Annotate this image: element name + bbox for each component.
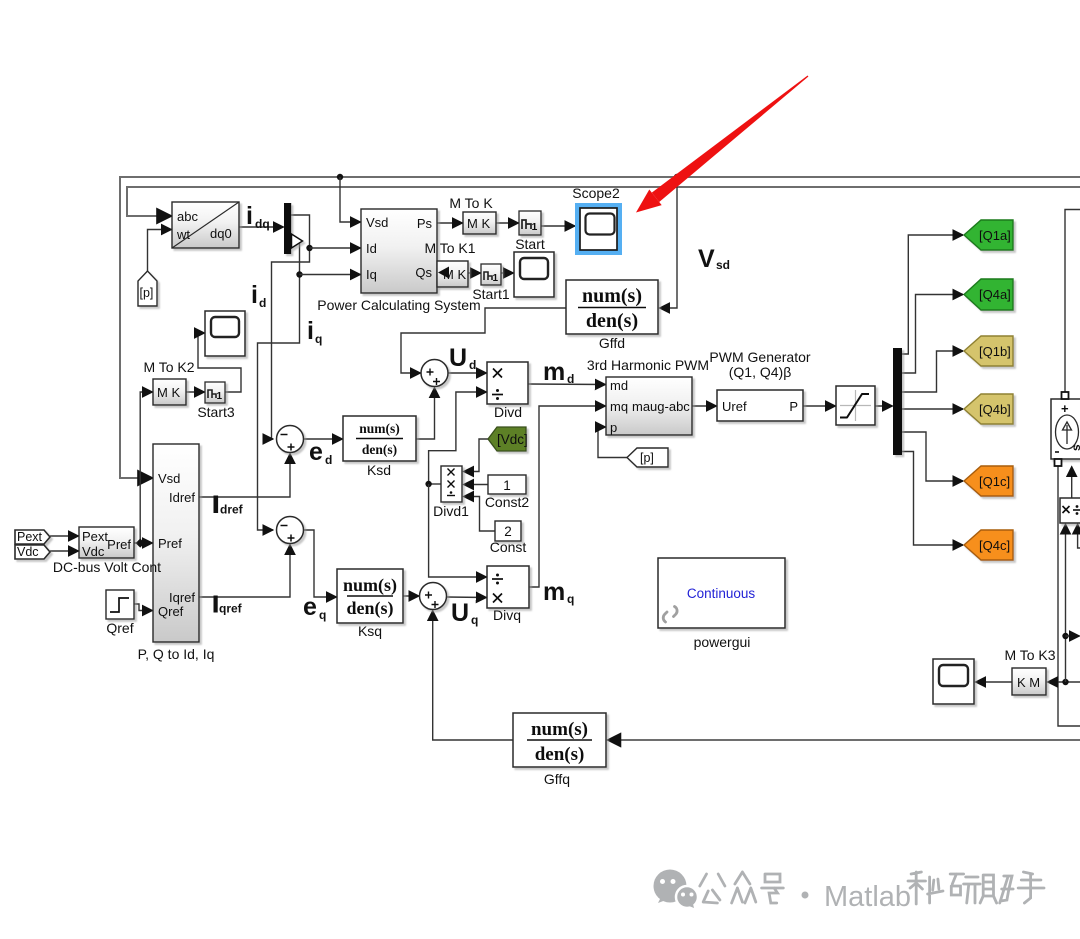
block Divd1 product mirrored bbox=[441, 466, 462, 502]
wire e_d to Ksd bbox=[304, 438, 343, 440]
svg-text:Ps: Ps bbox=[417, 216, 433, 231]
svg-text:m: m bbox=[543, 358, 565, 386]
tag Q4c goto bbox=[964, 530, 1013, 560]
junction rail A to Power Calculating System bbox=[337, 174, 343, 180]
svg-text:M K: M K bbox=[157, 385, 180, 400]
svg-text:d: d bbox=[567, 372, 574, 386]
wire branch to right edge y636 bbox=[1066, 635, 1080, 637]
wire Gffd output to U_d sum left bbox=[401, 308, 566, 373]
svg-text:[Vdc]: [Vdc] bbox=[497, 432, 528, 447]
svg-text:num(s): num(s) bbox=[359, 421, 400, 436]
scope2 selected bbox=[578, 206, 620, 253]
svg-text:powergui: powergui bbox=[694, 634, 751, 650]
block Const2 bbox=[488, 475, 526, 494]
svg-text:mq: mq bbox=[610, 399, 628, 414]
block 3rd Harmonic PWM bbox=[606, 377, 692, 435]
block powergui bbox=[658, 558, 785, 628]
svg-text:qref: qref bbox=[219, 602, 243, 616]
svg-text:d: d bbox=[325, 453, 332, 467]
wire m_q Divq to 3rd Harmonic mq bbox=[529, 406, 606, 587]
wire M To K1 to Start1 bbox=[468, 272, 481, 274]
tag p from (up) bbox=[138, 271, 157, 306]
wire demux2 out6 to Q4c bbox=[902, 452, 963, 546]
wire demux2 out1 to Q1a bbox=[902, 235, 963, 354]
scope4 bbox=[933, 659, 974, 704]
demux1 bbox=[284, 203, 303, 254]
svg-text:p: p bbox=[610, 420, 617, 435]
wire demux2 out2 to Q4a bbox=[902, 295, 963, 374]
svg-text:Divd: Divd bbox=[494, 404, 522, 420]
svg-text:d: d bbox=[469, 358, 476, 372]
wire demux2 out5 to Q1c bbox=[902, 432, 963, 481]
svg-text:[Q4c]: [Q4c] bbox=[979, 538, 1010, 553]
svg-text:Uref: Uref bbox=[722, 399, 747, 414]
block Start1 step bbox=[481, 264, 501, 285]
svg-text:DC-bus Volt Cont: DC-bus Volt Cont bbox=[53, 559, 161, 575]
svg-text:Start3: Start3 bbox=[197, 404, 235, 420]
junction i_d bbox=[306, 245, 312, 251]
wire M To K2 to Start3 bbox=[186, 391, 205, 393]
tag Vdc goto green bbox=[488, 427, 528, 451]
svg-text:dref: dref bbox=[220, 503, 244, 517]
wire Gffq long feedback input bbox=[608, 739, 1080, 741]
block dq0 abc transform bbox=[172, 202, 239, 248]
wire Pref output bbox=[134, 542, 153, 544]
svg-text:P, Q to Id, Iq: P, Q to Id, Iq bbox=[138, 646, 215, 662]
wire demux out1 i_d bbox=[272, 215, 310, 439]
wire Idref to e_d sum bbox=[199, 454, 290, 498]
wire K M output to scope4 bbox=[976, 681, 1013, 683]
svg-text:d: d bbox=[259, 296, 266, 310]
block Const bbox=[495, 521, 521, 541]
svg-text:U: U bbox=[451, 599, 469, 627]
svg-text:Gffd: Gffd bbox=[599, 335, 625, 351]
svg-text:num(s): num(s) bbox=[531, 719, 588, 740]
wire from tag p to 3rd Harmonic p input bbox=[598, 427, 627, 458]
svg-text:Vsd: Vsd bbox=[366, 215, 388, 230]
svg-text:Qs: Qs bbox=[415, 265, 432, 280]
svg-text:q: q bbox=[567, 592, 574, 606]
svg-text:Gffq: Gffq bbox=[544, 771, 570, 787]
svg-text:V: V bbox=[698, 245, 715, 273]
wire demux2 out3 to Q1b bbox=[902, 351, 963, 392]
wire right edge feed to K M and product2 bbox=[1048, 681, 1080, 683]
wire PWM Generator P to saturation bbox=[803, 405, 836, 407]
tag Q1b goto bbox=[964, 336, 1013, 366]
wire Const2 to Divd1 input2 bbox=[464, 484, 489, 486]
tag Pext inport bbox=[15, 530, 50, 544]
svg-text:e: e bbox=[309, 438, 323, 466]
svg-text:M To K1: M To K1 bbox=[424, 240, 475, 256]
svg-text:s: s bbox=[1069, 444, 1080, 451]
wire right edge into current source plus terminal bbox=[1065, 210, 1080, 393]
svg-text:Power Calculating System: Power Calculating System bbox=[317, 297, 480, 313]
wire Iqref to e_q sum bbox=[199, 545, 290, 598]
tag Vdc inport bbox=[15, 545, 50, 559]
wire Pref riser to M To K2 input bbox=[140, 392, 152, 543]
svg-text:Ksq: Ksq bbox=[358, 623, 382, 639]
wire m_d Divd to 3rd Harmonic md bbox=[528, 383, 606, 386]
svg-text:abc: abc bbox=[177, 209, 198, 224]
block Gffd transfer function bbox=[566, 280, 658, 334]
svg-text:Start: Start bbox=[515, 236, 545, 252]
svg-text:Divq: Divq bbox=[493, 607, 521, 623]
svg-text:num(s): num(s) bbox=[343, 575, 397, 596]
svg-text:M To K3: M To K3 bbox=[1004, 647, 1055, 663]
wire M To K to Start bbox=[496, 222, 519, 224]
terminal current source minus bbox=[1055, 459, 1062, 466]
block Divq product bbox=[487, 566, 529, 608]
svg-text:m: m bbox=[543, 578, 565, 606]
wire U_q to Divq input2 bbox=[447, 596, 487, 599]
svg-text:den(s): den(s) bbox=[586, 310, 638, 332]
tag Q4a goto bbox=[964, 279, 1013, 310]
wire demux out2 i_q bbox=[258, 241, 300, 530]
junction K M feed bbox=[1062, 679, 1068, 685]
block K M rate bbox=[1012, 668, 1046, 695]
block PWM Generator bbox=[717, 390, 803, 421]
demux2 bbox=[893, 348, 902, 455]
svg-text:dq: dq bbox=[255, 217, 270, 231]
block Ksd transfer function bbox=[343, 416, 416, 461]
wire Start3 to scope K2 bbox=[198, 333, 241, 392]
wire Ksq to U_q sum bbox=[403, 595, 419, 597]
svg-text:1: 1 bbox=[503, 478, 511, 493]
wire Divd1 junction down to Divq input1 bbox=[429, 484, 487, 577]
svg-text:[p]: [p] bbox=[640, 451, 654, 465]
tag Q1c goto bbox=[964, 466, 1013, 496]
wire top rail B (abc measurement bus) bbox=[127, 187, 1080, 216]
block M To K2 bbox=[153, 379, 186, 405]
wire Divd1 output bbox=[429, 483, 441, 485]
wire Start1 to scope bbox=[501, 272, 514, 274]
svg-text:U: U bbox=[449, 344, 467, 372]
wire rail A down to Vsd input of Power Calculating System bbox=[340, 177, 361, 222]
svg-text:Matlab: Matlab bbox=[824, 881, 911, 913]
block P Q to Id Iq bbox=[153, 444, 199, 642]
svg-text:[Q4b]: [Q4b] bbox=[979, 402, 1011, 417]
svg-text:[p]: [p] bbox=[140, 286, 154, 300]
block Ksq transfer function bbox=[337, 569, 403, 623]
svg-text:Const: Const bbox=[490, 539, 527, 555]
svg-text:Pext: Pext bbox=[17, 530, 43, 544]
sum U_q bbox=[420, 583, 447, 610]
wire Gffq output to U_q sum bottom bbox=[433, 611, 513, 741]
svg-text:Continuous: Continuous bbox=[687, 586, 756, 601]
svg-text:P: P bbox=[789, 399, 798, 414]
svg-text:q: q bbox=[471, 613, 478, 627]
junction rail A to Gffd bbox=[674, 174, 680, 180]
block saturation bbox=[836, 386, 875, 425]
scope K2 bbox=[205, 311, 245, 356]
wire Ksd to U_d sum bottom bbox=[416, 388, 435, 440]
svg-text:Vsd: Vsd bbox=[158, 471, 180, 486]
svg-text:num(s): num(s) bbox=[582, 285, 642, 307]
sum e_q bbox=[277, 517, 304, 544]
svg-text:Start1: Start1 bbox=[472, 286, 510, 302]
svg-text:Id: Id bbox=[366, 241, 377, 256]
wire product2 input2 from right edge bbox=[1078, 524, 1080, 548]
wire Vdc tag to Divd1 input1 bbox=[464, 439, 489, 472]
scope of Start1 bbox=[514, 252, 554, 297]
svg-text:i: i bbox=[251, 281, 258, 309]
junction branch right at y636 bbox=[1062, 633, 1068, 639]
svg-text:maug-abc: maug-abc bbox=[632, 399, 690, 414]
watermark wechat icon bbox=[654, 870, 699, 909]
wire Divd1 junction to Divd input2 bbox=[429, 392, 487, 484]
svg-text:1: 1 bbox=[493, 273, 499, 284]
wire from tag p to wt input of dq0 bbox=[148, 230, 172, 272]
wire saturation to demux2 bbox=[875, 405, 893, 407]
svg-text:+: + bbox=[1061, 401, 1069, 416]
svg-text:2: 2 bbox=[504, 524, 512, 539]
svg-text:Vdc: Vdc bbox=[17, 545, 39, 559]
svg-text:(Q1, Q4)β: (Q1, Q4)β bbox=[729, 364, 792, 380]
annotation red arrow bbox=[636, 76, 808, 213]
wire Vdc tag to DC-bus bbox=[50, 550, 79, 552]
svg-text:e: e bbox=[303, 593, 317, 621]
svg-text:[Q4a]: [Q4a] bbox=[979, 287, 1011, 302]
wire i_d branch to Id input bbox=[310, 247, 361, 249]
svg-text:Divd1: Divd1 bbox=[433, 503, 469, 519]
svg-text:Pref: Pref bbox=[107, 537, 131, 552]
svg-text:Iqref: Iqref bbox=[169, 590, 195, 605]
wire i_q branch to Iq input bbox=[300, 274, 361, 276]
tag p from (left) bbox=[627, 448, 668, 467]
svg-text:den(s): den(s) bbox=[535, 744, 585, 765]
svg-text:wt: wt bbox=[176, 227, 190, 242]
svg-text:K M: K M bbox=[1017, 675, 1040, 690]
svg-text:q: q bbox=[315, 332, 322, 346]
svg-text:[Q1b]: [Q1b] bbox=[979, 344, 1011, 359]
svg-text:Iq: Iq bbox=[366, 267, 377, 282]
wire rail A down to Gffd input (mirrored) bbox=[660, 177, 678, 308]
block Power Calculating System bbox=[361, 209, 437, 293]
svg-text:i: i bbox=[307, 317, 314, 345]
block Qref step bbox=[106, 590, 134, 619]
svg-text:Scope2: Scope2 bbox=[572, 185, 620, 201]
svg-text:sd: sd bbox=[716, 258, 730, 272]
svg-text:Qref: Qref bbox=[106, 620, 133, 636]
wire Pext tag to DC-bus bbox=[50, 535, 79, 537]
block M To K1 mirrored bbox=[437, 261, 468, 287]
tag Q1a goto bbox=[964, 220, 1013, 250]
junction Pref bbox=[136, 538, 145, 547]
svg-text:i: i bbox=[246, 202, 253, 230]
wire U_d to Divd bbox=[448, 372, 487, 374]
wire product2 output up to current source s input bbox=[1071, 467, 1073, 499]
wire demux2 out4 to Q4b bbox=[902, 408, 963, 410]
tag Q4b goto bbox=[964, 394, 1013, 424]
block Divd product bbox=[487, 362, 528, 404]
svg-text:1: 1 bbox=[217, 391, 223, 402]
wire top rail A (Vsd measurement bus) bbox=[120, 177, 1080, 478]
svg-text:Pext: Pext bbox=[82, 529, 108, 544]
annotation Iqref marker bbox=[214, 596, 218, 613]
svg-text:md: md bbox=[610, 378, 628, 393]
wire Start to Scope2 bbox=[541, 225, 575, 227]
terminal current source plus bbox=[1062, 392, 1069, 399]
svg-text:den(s): den(s) bbox=[362, 442, 397, 457]
svg-text:1: 1 bbox=[532, 221, 538, 233]
svg-text:Const2: Const2 bbox=[485, 494, 530, 510]
block product2 bbox=[1060, 498, 1080, 523]
wire riser to product2 input1 bbox=[1065, 524, 1067, 682]
svg-text:M K: M K bbox=[467, 216, 490, 231]
svg-text:Qref: Qref bbox=[158, 604, 184, 619]
svg-text:PWM Generator: PWM Generator bbox=[709, 349, 810, 365]
wire Const to Divd1 input3 bbox=[464, 497, 496, 532]
block DC-bus Volt Cont bbox=[79, 527, 134, 559]
block current source bbox=[1051, 399, 1080, 459]
svg-text:Vdc: Vdc bbox=[82, 544, 105, 559]
svg-text:Pref: Pref bbox=[158, 536, 182, 551]
svg-text:[Q1a]: [Q1a] bbox=[979, 228, 1011, 243]
svg-text:M To K2: M To K2 bbox=[143, 359, 194, 375]
block Start step bbox=[519, 211, 541, 235]
svg-text:q: q bbox=[319, 608, 326, 622]
svg-text:Idref: Idref bbox=[169, 490, 195, 505]
sum e_d bbox=[277, 426, 304, 453]
wire Ps to M To K bbox=[437, 222, 463, 224]
watermark text bbox=[700, 872, 1044, 904]
block Start3 step bbox=[205, 382, 225, 403]
wire e_q to Ksq bbox=[304, 530, 337, 597]
block Gffq transfer function bbox=[513, 713, 606, 767]
svg-text:den(s): den(s) bbox=[346, 598, 393, 619]
annotation Idref marker bbox=[214, 496, 219, 514]
junction Divd1 output bbox=[425, 481, 431, 487]
wire 3rd Harmonic to PWM Generator bbox=[692, 405, 717, 407]
wire dq0 output i_dq to demux bbox=[239, 226, 284, 228]
wire Qref to P Q block bbox=[134, 604, 153, 611]
block M To K bbox=[463, 212, 496, 234]
svg-text:3rd Harmonic PWM: 3rd Harmonic PWM bbox=[587, 357, 709, 373]
sum U_d bbox=[421, 360, 448, 387]
wire current source minus terminal down to right edge bbox=[1058, 466, 1080, 726]
svg-text:Ksd: Ksd bbox=[367, 462, 391, 478]
svg-text:M To K: M To K bbox=[449, 195, 493, 211]
svg-text:dq0: dq0 bbox=[210, 226, 232, 241]
junction i_q bbox=[296, 271, 302, 277]
svg-text:[Q1c]: [Q1c] bbox=[979, 474, 1010, 489]
